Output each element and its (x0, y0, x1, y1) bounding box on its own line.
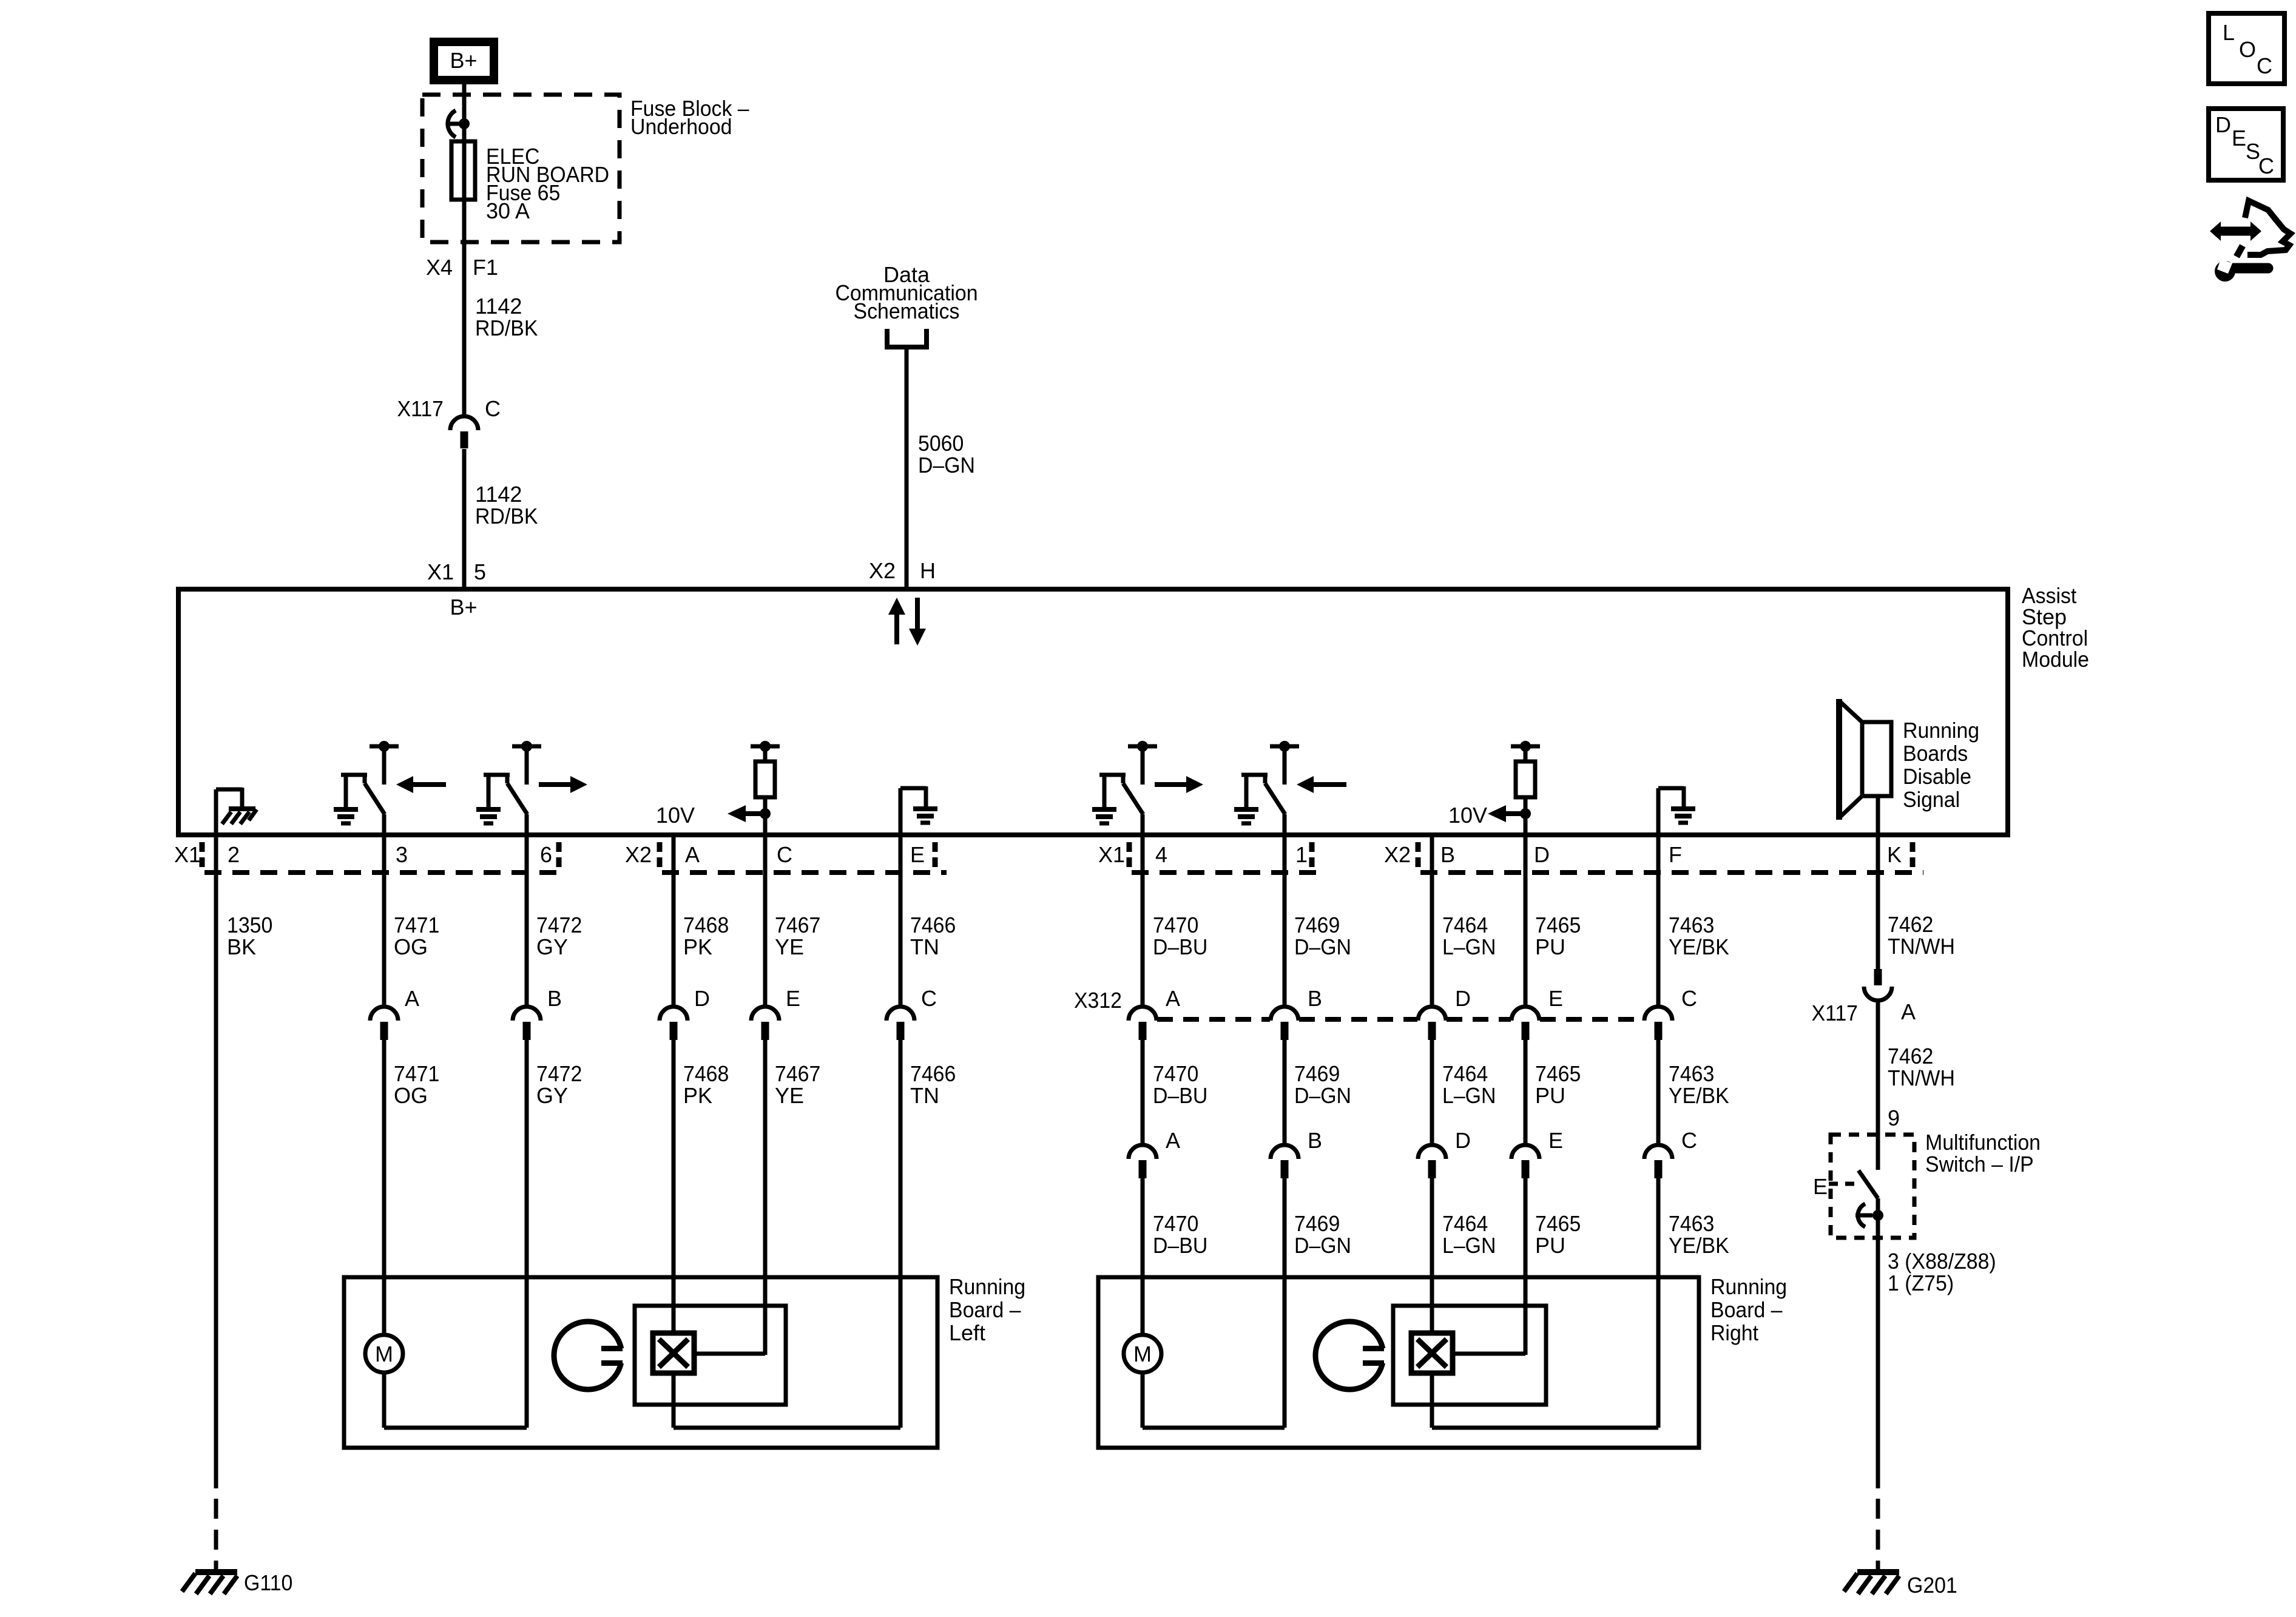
svg-text:D–GN: D–GN (1294, 934, 1351, 959)
svg-text:7465: 7465 (1535, 1211, 1581, 1236)
connector D right row2 (1418, 1128, 1471, 1178)
svg-text:Module: Module (2022, 647, 2089, 672)
connector A left row (370, 986, 419, 1040)
wire label 7463 YE/BK lower (1669, 1211, 1729, 1258)
wire label 7466 TN lower (910, 1061, 956, 1108)
wire 7465 PU pin D lower (1524, 1178, 1528, 1355)
running board left box (344, 1277, 937, 1448)
svg-text:G201: G201 (1907, 1573, 1957, 1598)
svg-text:TN: TN (910, 1083, 939, 1108)
motor M right (1124, 1335, 1161, 1372)
svg-text:X1: X1 (1098, 842, 1125, 867)
svg-text:YE/BK: YE/BK (1669, 1083, 1729, 1108)
wire label 7472 GY upper (536, 913, 582, 959)
svg-text:RD/BK: RD/BK (475, 316, 538, 340)
svg-text:Signal: Signal (1903, 787, 1960, 812)
svg-text:YE: YE (775, 934, 804, 959)
wire 7472 GY pin 6 lower (525, 1040, 529, 1428)
svg-text:C: C (2257, 53, 2272, 78)
wire 7467 YE pin C lower (763, 1040, 768, 1355)
svg-text:3 (X88/Z88): 3 (X88/Z88) (1888, 1249, 1996, 1274)
svg-text:X4: X4 (426, 255, 453, 280)
svg-text:7469: 7469 (1294, 913, 1340, 937)
svg-text:D–BU: D–BU (1153, 1233, 1207, 1258)
svg-text:7469: 7469 (1294, 1211, 1340, 1236)
svg-text:X2: X2 (1384, 842, 1411, 867)
wire label 7467 YE upper (775, 913, 820, 959)
hall sensor X right (1411, 1333, 1453, 1373)
wire label 7471 OG lower (394, 1061, 439, 1108)
wire 7465 PU pin D upper (1524, 836, 1528, 1005)
svg-text:L: L (2223, 20, 2235, 45)
label Data Communication Schematics (835, 262, 977, 323)
svg-text:7467: 7467 (775, 1061, 820, 1086)
wire 7470 D-BU pin 4 middle (1141, 1040, 1145, 1144)
wire 7469 D-GN pin 1 middle (1283, 1040, 1287, 1144)
svg-text:7470: 7470 (1153, 1211, 1198, 1236)
wire 7463 YE/BK pin F middle (1656, 1040, 1661, 1144)
svg-text:5060: 5060 (918, 431, 964, 456)
label Running Board Left (949, 1274, 1025, 1345)
wire label 7467 YE lower (775, 1061, 820, 1108)
wire label 7462 TN/WH upper (1888, 912, 1955, 959)
svg-text:E: E (910, 842, 925, 867)
svg-text:X117: X117 (1812, 1001, 1859, 1025)
speaker running boards disable (1839, 699, 1891, 836)
wire 7463 YE/BK pin F upper (1656, 836, 1661, 1005)
connector X312 E (1511, 986, 1563, 1040)
svg-text:X1: X1 (427, 559, 454, 584)
svg-text:Underhood: Underhood (630, 114, 732, 139)
connector D left row (660, 986, 710, 1040)
fuse block dashed box (422, 95, 620, 242)
svg-text:7471: 7471 (394, 913, 439, 937)
dashed link X312 A-B (1157, 1017, 1270, 1022)
wire 7462 TN/WH pin K upper (1876, 836, 1880, 969)
wire label 7465 PU lower (1535, 1211, 1581, 1258)
wire label 7462 TN/WH lower (1888, 1044, 1955, 1090)
svg-text:7466: 7466 (910, 1061, 956, 1086)
svg-text:B: B (1440, 842, 1455, 867)
svg-text:30 A: 30 A (486, 198, 530, 223)
svg-text:X2: X2 (869, 558, 896, 583)
svg-text:A: A (1166, 986, 1180, 1011)
svg-text:H: H (920, 558, 936, 583)
running board right box (1098, 1277, 1699, 1448)
svg-text:C: C (777, 842, 792, 867)
dashed link X312 E-C (1540, 1017, 1644, 1022)
svg-text:A: A (1166, 1128, 1180, 1153)
wire 7472 GY pin 6 upper (525, 836, 529, 1005)
connector X2 dashed line right (1420, 870, 1923, 875)
connector A right row2 (1129, 1128, 1180, 1178)
wire hall return right (1432, 1373, 1658, 1428)
svg-text:RD/BK: RD/BK (475, 504, 538, 528)
switch internal pin 6 (476, 741, 541, 836)
connector X1 dashed line left (204, 870, 567, 875)
switch internal pin 1 (1234, 741, 1299, 836)
svg-text:Running: Running (1710, 1274, 1787, 1299)
service icon wrench (2215, 259, 2268, 282)
wire 7464 L-GN pin B middle (1430, 1040, 1434, 1144)
wire label 7466 TN upper (910, 913, 956, 959)
svg-text:3: 3 (396, 842, 408, 867)
hall sensor X left (653, 1333, 694, 1373)
labels 3 X88/Z88 1 Z75 (1888, 1249, 1996, 1295)
svg-text:X1: X1 (174, 842, 201, 867)
svg-text:PK: PK (683, 934, 712, 959)
svg-text:Board –: Board – (949, 1297, 1021, 1322)
wire 7470 D-BU pin 4 lower (1141, 1178, 1145, 1335)
wire B+ feed to fuse (462, 84, 467, 141)
svg-text:7467: 7467 (775, 913, 820, 937)
wire 7463 YE/BK pin F lower (1656, 1178, 1661, 1428)
svg-text:A: A (405, 986, 419, 1011)
module Assist Step Control Module box (178, 589, 2008, 835)
ground G110 (182, 1572, 237, 1594)
label Multifunction Switch I/P (1925, 1130, 2041, 1176)
wire 7462 TN/WH pin K lower (1876, 1001, 1880, 1170)
wire 7465 PU pin D middle (1524, 1040, 1528, 1144)
wire label 7465 PU upper (1535, 913, 1581, 959)
svg-text:PU: PU (1535, 934, 1565, 959)
svg-text:F1: F1 (473, 255, 498, 280)
arrow extend right pin 4 (1155, 776, 1203, 793)
wire 7468 PK pin A lower (672, 1040, 676, 1333)
svg-text:E: E (1548, 986, 1563, 1011)
svg-text:B+: B+ (450, 48, 477, 73)
wire label 7468 PK upper (683, 913, 729, 959)
svg-text:7472: 7472 (536, 1061, 582, 1086)
off-page bracket data bus (887, 329, 927, 347)
ground internal pin 2 (216, 788, 257, 836)
wire label 7470 D-BU upper (1153, 913, 1207, 959)
wire label 7469 D-GN middle (1294, 1061, 1351, 1108)
svg-text:D–BU: D–BU (1153, 1083, 1207, 1108)
svg-text:E: E (1813, 1174, 1828, 1199)
resistor internal pin D (1511, 741, 1540, 836)
labels X117 A (1812, 999, 1916, 1025)
labels X2 H module pin (869, 558, 936, 583)
wire dashed to G110 (214, 1499, 218, 1572)
svg-text:X2: X2 (625, 842, 652, 867)
svg-text:O: O (2239, 37, 2256, 62)
wire 1142 to module (462, 449, 467, 589)
pin row labels below module (174, 842, 1902, 867)
labels X4 F1 (426, 255, 498, 280)
svg-text:A: A (685, 842, 700, 867)
svg-text:7464: 7464 (1442, 1061, 1488, 1086)
svg-text:M: M (375, 1342, 393, 1366)
wire label 7469 D-GN upper (1294, 913, 1351, 959)
svg-text:2: 2 (228, 842, 240, 867)
svg-text:1142: 1142 (475, 294, 522, 319)
connector X117 pin A (1864, 969, 1892, 1001)
wire motor right return (1143, 1372, 1285, 1428)
label Fuse Block Underhood (630, 96, 749, 139)
wire motor left return (384, 1372, 527, 1428)
svg-text:E: E (2232, 126, 2246, 150)
svg-text:7470: 7470 (1153, 913, 1198, 937)
svg-text:PU: PU (1535, 1083, 1565, 1108)
svg-text:YE/BK: YE/BK (1669, 934, 1729, 959)
connector X117 pin C (450, 416, 478, 448)
switch internal pin 4 (1092, 741, 1157, 836)
svg-text:Disable: Disable (1903, 764, 1971, 789)
label Assist Step Control Module (2022, 583, 2089, 672)
svg-text:4: 4 (1155, 842, 1167, 867)
label Running Boards Disable Signal (1903, 718, 1979, 812)
svg-text:Running: Running (1903, 718, 1979, 743)
svg-text:D: D (1455, 986, 1471, 1011)
svg-text:YE/BK: YE/BK (1669, 1233, 1729, 1258)
svg-text:PU: PU (1535, 1233, 1565, 1258)
position sensor rotor left (554, 1322, 632, 1389)
svg-text:L–GN: L–GN (1442, 934, 1496, 959)
connector separators dashed (202, 842, 1913, 868)
wire label 7468 PK lower (683, 1061, 729, 1108)
connector X2 dashed line left (662, 870, 947, 875)
svg-text:7472: 7472 (536, 913, 582, 937)
label Running Board Right (1710, 1274, 1787, 1345)
connector X312 B (1271, 986, 1322, 1040)
connector X1 dashed line right (1132, 870, 1326, 875)
connector B right row2 (1271, 1128, 1322, 1178)
svg-text:GY: GY (536, 934, 568, 959)
data bidirectional arrows (888, 598, 926, 646)
connector X312 A (1129, 986, 1180, 1040)
svg-text:TN: TN (910, 934, 939, 959)
svg-text:E: E (786, 986, 800, 1011)
svg-text:7462: 7462 (1888, 1044, 1933, 1068)
svg-text:5: 5 (474, 559, 486, 584)
service icon double arrow (2210, 221, 2261, 241)
wire 7464 L-GN pin B upper (1430, 836, 1434, 1005)
svg-text:OG: OG (394, 934, 428, 959)
wire label 1350 BK (227, 913, 272, 959)
svg-text:1142: 1142 (475, 482, 522, 507)
power symbol B+ (430, 38, 498, 84)
wire label 7463 YE/BK middle (1669, 1061, 1729, 1108)
connector X312 C (1644, 986, 1697, 1040)
wire label 5060 D-GN (918, 431, 975, 478)
dashed link X312 B-D (1299, 1017, 1417, 1022)
wire label 7464 L-GN lower (1442, 1211, 1496, 1258)
connector E right row2 (1511, 1128, 1563, 1178)
wire 7464 L-GN pin B lower (1430, 1178, 1434, 1333)
connector C right row2 (1644, 1128, 1697, 1178)
wire hall return left (674, 1373, 900, 1428)
junction dot on fuse feed (459, 118, 470, 129)
position sensor housing left (635, 1306, 786, 1405)
svg-text:1 (Z75): 1 (Z75) (1888, 1271, 1954, 1295)
svg-text:Board –: Board – (1710, 1297, 1783, 1322)
svg-text:C: C (1681, 1128, 1697, 1153)
svg-text:D: D (2215, 112, 2231, 137)
wire 7471 OG pin 3 lower (382, 1040, 387, 1335)
clip symbol multifunction (1855, 1204, 1872, 1227)
svg-text:X117: X117 (397, 396, 444, 421)
svg-text:10V: 10V (656, 803, 695, 828)
svg-text:PK: PK (683, 1083, 712, 1108)
svg-text:Schematics: Schematics (854, 299, 960, 323)
svg-text:TN/WH: TN/WH (1888, 1065, 1955, 1090)
svg-text:1350: 1350 (227, 913, 272, 937)
svg-text:B: B (547, 986, 562, 1011)
svg-text:7465: 7465 (1535, 913, 1581, 937)
wire fuse output (462, 200, 467, 414)
wire label 7464 L-GN upper (1442, 913, 1496, 959)
svg-text:TN/WH: TN/WH (1888, 934, 1955, 959)
wire 7466 TN pin E upper (899, 836, 903, 1005)
svg-text:F: F (1669, 842, 1682, 867)
wire label 7465 PU middle (1535, 1061, 1581, 1108)
arrow extend right pin 6 (539, 776, 587, 793)
svg-text:Running: Running (949, 1274, 1025, 1299)
svg-text:Multifunction: Multifunction (1925, 1130, 2041, 1155)
wire 7471 OG pin 3 upper (382, 836, 387, 1005)
svg-text:M: M (1133, 1342, 1152, 1366)
wire 7467 YE pin C upper (763, 836, 768, 1005)
position sensor housing right (1393, 1306, 1546, 1405)
wire 1350 BK pin 2 (214, 836, 218, 1488)
wire label 1142 RD/BK upper (475, 294, 538, 340)
wire hall supply right (1453, 1306, 1525, 1354)
svg-text:D–GN: D–GN (918, 453, 975, 478)
svg-text:D: D (694, 986, 710, 1011)
junction dot multifunction (1872, 1210, 1883, 1221)
svg-text:OG: OG (394, 1083, 428, 1108)
svg-text:YE: YE (775, 1083, 804, 1108)
svg-text:7471: 7471 (394, 1061, 439, 1086)
svg-text:K: K (1887, 842, 1902, 867)
multifunction switch box dashed (1831, 1135, 1914, 1238)
service icon panel outline (2237, 201, 2291, 257)
svg-text:B+: B+ (450, 595, 477, 619)
wire multifunction to ground (1876, 1215, 1880, 1488)
svg-text:D: D (1455, 1128, 1471, 1153)
svg-text:D–GN: D–GN (1294, 1233, 1351, 1258)
wire label 7470 D-BU lower (1153, 1211, 1207, 1258)
svg-text:Left: Left (949, 1320, 985, 1345)
wire 7469 D-GN pin 1 lower (1283, 1178, 1287, 1428)
svg-text:X312: X312 (1074, 988, 1122, 1013)
wire dashed to G201 (1876, 1499, 1880, 1572)
wire 5060 serial data (905, 347, 909, 589)
connector B left row (513, 986, 562, 1040)
arrow extend left pin 1 (1297, 776, 1346, 793)
wire label 7472 GY lower (536, 1061, 582, 1108)
svg-text:C: C (2258, 154, 2274, 178)
wire label 7463 YE/BK upper (1669, 913, 1729, 959)
svg-text:6: 6 (540, 842, 552, 867)
dashed link X312 D-E (1447, 1017, 1511, 1022)
svg-text:A: A (1901, 999, 1916, 1024)
ground internal pin F (1658, 786, 1695, 836)
labels X1 5 module pin (427, 559, 486, 584)
arrow output pin D (1488, 805, 1531, 822)
svg-text:B: B (1308, 1128, 1322, 1153)
svg-text:7470: 7470 (1153, 1061, 1198, 1086)
svg-text:C: C (921, 986, 937, 1011)
ground G201 (1844, 1572, 1899, 1594)
switch blade multifunction (1859, 1170, 1878, 1215)
svg-text:7466: 7466 (910, 913, 956, 937)
svg-text:GY: GY (536, 1083, 568, 1108)
DESC nav box (2209, 109, 2283, 180)
ground internal pin E (900, 786, 937, 836)
wire 7468 PK pin A upper (672, 836, 676, 1005)
svg-text:E: E (1548, 1128, 1563, 1153)
svg-text:D: D (1534, 842, 1550, 867)
svg-text:7468: 7468 (683, 913, 729, 937)
switch internal pin 3 (334, 741, 399, 836)
svg-text:7463: 7463 (1669, 1211, 1714, 1236)
svg-text:7464: 7464 (1442, 913, 1488, 937)
arrow output pin C (728, 805, 771, 822)
wire 7470 D-BU pin 4 upper (1141, 836, 1145, 1005)
svg-text:Right: Right (1710, 1320, 1758, 1345)
svg-text:7463: 7463 (1669, 913, 1714, 937)
svg-text:7465: 7465 (1535, 1061, 1581, 1086)
fuse clip symbol (448, 110, 464, 137)
LOC nav box (2209, 13, 2284, 84)
svg-text:G110: G110 (244, 1570, 292, 1595)
wire 7466 TN pin E lower (899, 1040, 903, 1428)
svg-text:7463: 7463 (1669, 1061, 1714, 1086)
svg-text:1: 1 (1295, 842, 1308, 867)
svg-text:L–GN: L–GN (1442, 1233, 1496, 1258)
fuse F1 ELEC RUN BOARD 30A (451, 124, 609, 223)
svg-text:C: C (485, 396, 501, 421)
svg-text:7462: 7462 (1888, 912, 1933, 937)
svg-text:7468: 7468 (683, 1061, 729, 1086)
label E position (1813, 1174, 1855, 1199)
svg-text:D–GN: D–GN (1294, 1083, 1351, 1108)
svg-text:Boards: Boards (1903, 741, 1968, 766)
wire 7469 D-GN pin 1 upper (1283, 836, 1287, 1005)
svg-text:10V: 10V (1448, 803, 1487, 828)
labels X117 C (397, 396, 501, 421)
svg-text:7469: 7469 (1294, 1061, 1340, 1086)
wire label 1142 RD/BK lower (475, 482, 538, 528)
wire label 7464 L-GN middle (1442, 1061, 1496, 1108)
svg-text:BK: BK (227, 934, 256, 959)
connector C left row (886, 986, 937, 1040)
wire label 7471 OG upper (394, 913, 439, 959)
arrow extend left pin 3 (396, 776, 446, 793)
svg-text:B: B (1308, 986, 1322, 1011)
wire hall supply left (694, 1306, 765, 1354)
motor M left (365, 1335, 403, 1372)
svg-text:L–GN: L–GN (1442, 1083, 1496, 1108)
wire label 7469 D-GN lower (1294, 1211, 1351, 1258)
connector X312 D (1418, 986, 1471, 1040)
svg-text:C: C (1681, 986, 1697, 1011)
svg-text:D–BU: D–BU (1153, 934, 1207, 959)
svg-text:9: 9 (1888, 1106, 1900, 1130)
svg-text:Switch – I/P: Switch – I/P (1925, 1152, 2034, 1176)
wire label 7470 D-BU middle (1153, 1061, 1207, 1108)
position sensor rotor right (1315, 1322, 1394, 1389)
resistor internal pin C (751, 741, 780, 836)
svg-text:7464: 7464 (1442, 1211, 1488, 1236)
connector E left row (751, 986, 800, 1040)
